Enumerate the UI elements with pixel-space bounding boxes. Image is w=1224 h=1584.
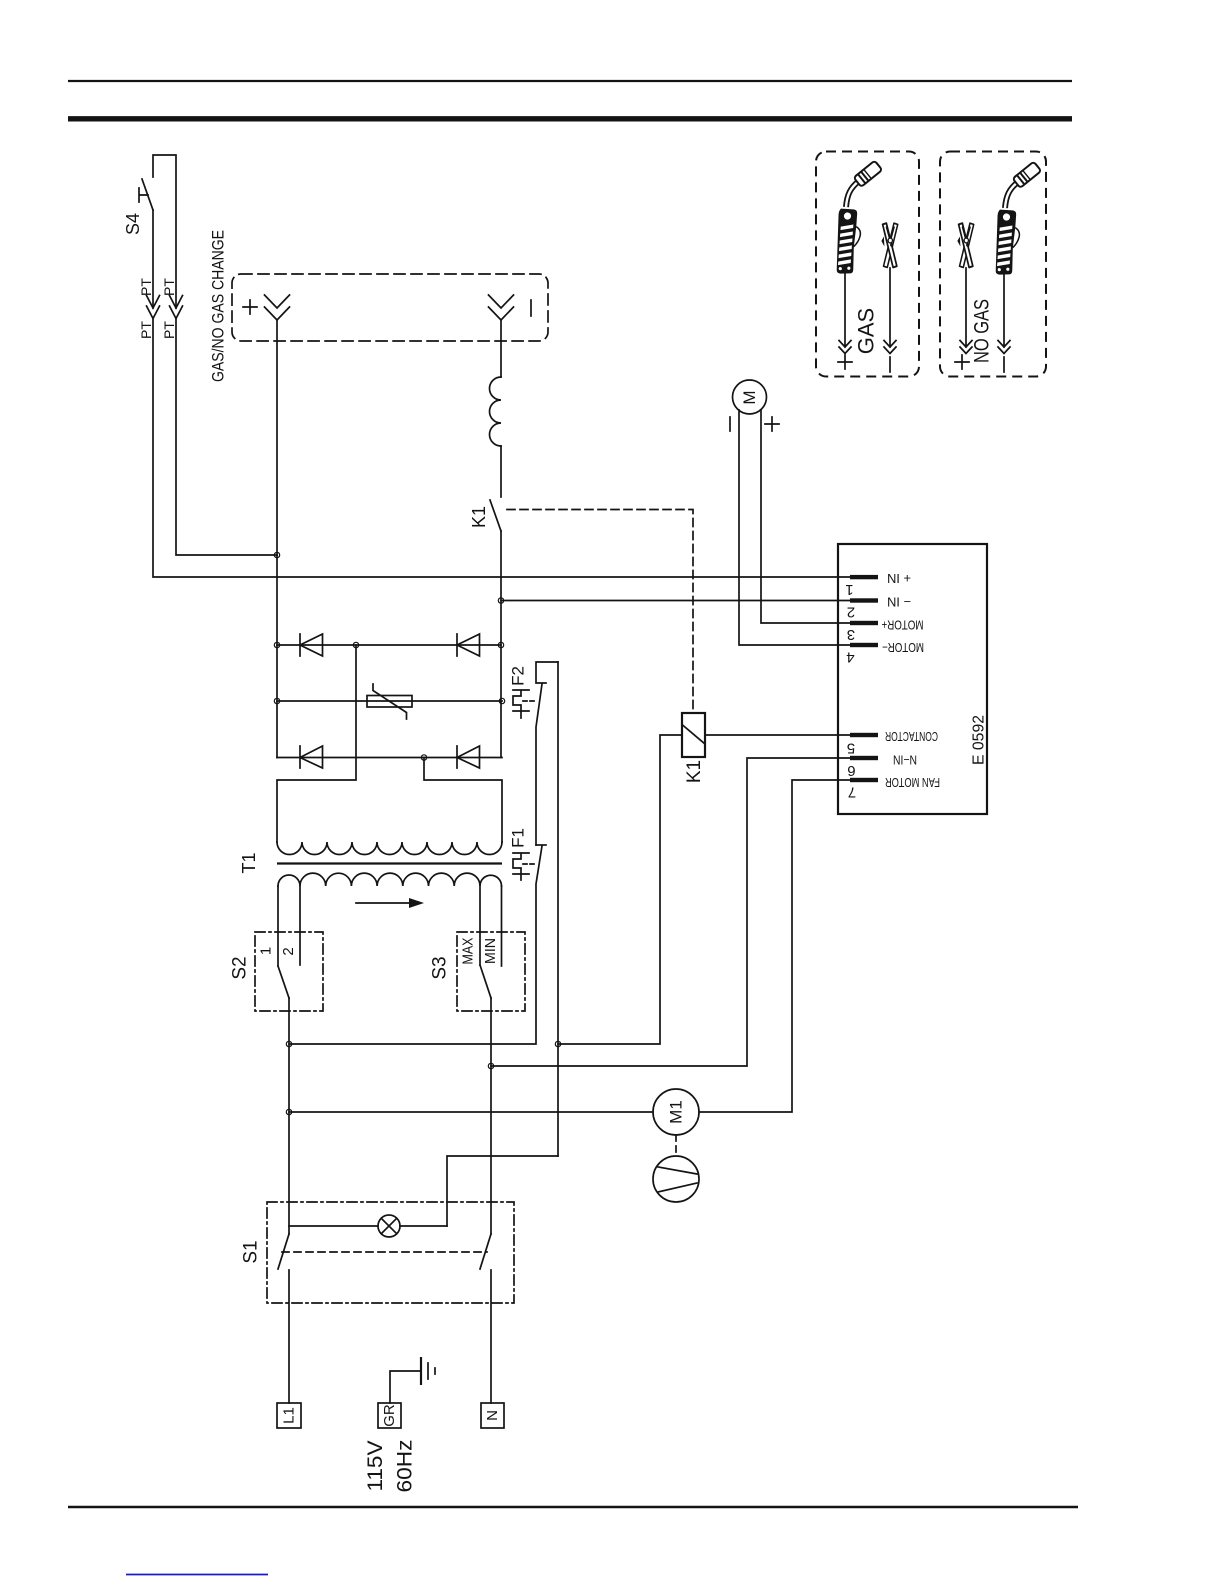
node varistor-row right junction bbox=[499, 698, 504, 703]
node AC hot / S2 output junction bbox=[286, 1041, 291, 1046]
node bus/IN- junction bbox=[498, 598, 503, 603]
dashed shaft link bbox=[675, 1135, 677, 1156]
wire + bus left bbox=[276, 555, 278, 758]
switch S3 blade bbox=[480, 965, 491, 998]
minus NO GAS bbox=[1003, 357, 1005, 372]
svg-text:GR: GR bbox=[381, 1404, 398, 1427]
svg-text:M1: M1 bbox=[667, 1100, 686, 1124]
svg-text:MOTOR−: MOTOR− bbox=[882, 640, 924, 654]
svg-text:GAS/NO GAS CHANGE: GAS/NO GAS CHANGE bbox=[209, 230, 228, 382]
svg-text:5: 5 bbox=[847, 740, 855, 757]
switch S1 box bbox=[267, 1202, 514, 1303]
switch S3 box bbox=[457, 932, 525, 1011]
pin 6 bar bbox=[850, 756, 878, 760]
wire S2 output bbox=[288, 998, 290, 1234]
wire S1 N output bbox=[490, 1270, 492, 1403]
wire varistor row bbox=[277, 700, 502, 702]
svg-text:− IN: − IN bbox=[887, 595, 911, 609]
torch icon GAS bbox=[834, 161, 882, 275]
terminal L1 box bbox=[277, 1403, 301, 1428]
svg-text:GAS: GAS bbox=[854, 308, 879, 354]
svg-text:6: 6 bbox=[847, 762, 855, 779]
arrow GAS clamp bbox=[884, 268, 896, 354]
pin 2 bar bbox=[850, 598, 878, 602]
svg-text:T1: T1 bbox=[239, 852, 259, 873]
wire S4 right lower to +bus bbox=[176, 319, 277, 556]
wire lamp feed bbox=[447, 1156, 558, 1226]
wire main bus (K1 to rectifier) bbox=[500, 531, 502, 758]
svg-text:2: 2 bbox=[847, 604, 855, 621]
output terminal - (double chevron) bbox=[489, 295, 514, 320]
wire rectifier row2 bbox=[277, 757, 502, 759]
svg-text:S2: S2 bbox=[230, 956, 251, 979]
fuse F2 dashed link bbox=[523, 700, 535, 702]
svg-text:PT: PT bbox=[161, 321, 177, 339]
switch S4 wire hook (top U-turn) bbox=[153, 155, 176, 308]
wire - terminal to inductor bbox=[500, 320, 502, 377]
wire primary MIN lead bbox=[501, 886, 503, 966]
wire lamp right bbox=[400, 1225, 447, 1227]
switch S2 box bbox=[255, 932, 323, 1011]
plus sign output + bbox=[243, 300, 257, 314]
svg-text:PT: PT bbox=[138, 278, 154, 296]
switch S1 blade L bbox=[278, 1234, 289, 1269]
terminal GR box bbox=[378, 1403, 401, 1428]
pin 5 bar bbox=[850, 733, 878, 737]
wire fan motor feed bbox=[289, 1111, 653, 1113]
svg-text:N−IN: N−IN bbox=[893, 753, 917, 767]
pin 1 bar bbox=[850, 575, 878, 579]
wire center tap to secondary left lead bbox=[277, 645, 356, 842]
label motor plus bbox=[765, 417, 779, 431]
fuse F1 blade and output bbox=[289, 846, 542, 1044]
connector PT right (chevron pair) bbox=[170, 296, 183, 319]
fuse F2 blade bbox=[536, 684, 542, 845]
svg-text:S1: S1 bbox=[241, 1240, 262, 1263]
fan impeller blades bbox=[658, 1167, 697, 1192]
svg-text:1: 1 bbox=[258, 947, 275, 955]
svg-text:S3: S3 bbox=[430, 956, 451, 979]
relay coil K1 body bbox=[682, 713, 705, 757]
dashed mechanical link bbox=[282, 1251, 487, 1253]
relay coil K1 diagonal bbox=[682, 725, 705, 745]
node row2 secondary-right junction bbox=[421, 755, 426, 760]
wire primary tap 2 lead bbox=[299, 886, 301, 965]
svg-text:+ IN: + IN bbox=[887, 571, 911, 585]
fan impeller circle bbox=[653, 1156, 699, 1202]
torch icon NO GAS bbox=[993, 162, 1041, 276]
diode D3 bbox=[300, 746, 323, 768]
svg-text:L1: L1 bbox=[281, 1407, 298, 1424]
plus GAS bbox=[838, 355, 852, 369]
wire contactor coil feed bbox=[558, 735, 682, 1044]
node row1 right junction bbox=[498, 642, 503, 647]
varistor RV1 body bbox=[367, 696, 412, 708]
diode D4 bbox=[457, 746, 480, 768]
node row1 center-tap junction bbox=[353, 642, 358, 647]
wire S4 left upper segment bbox=[152, 210, 154, 308]
wire row2 to secondary right lead bbox=[424, 758, 502, 843]
arrow current direction bbox=[356, 902, 409, 904]
fuse F2 thermal element bbox=[513, 690, 529, 718]
diode D2 bbox=[457, 634, 480, 656]
svg-text:FAN MOTOR: FAN MOTOR bbox=[885, 775, 940, 789]
wire + terminal to bus node bbox=[276, 320, 278, 555]
node +bus varistor junction bbox=[274, 698, 279, 703]
svg-text:3: 3 bbox=[847, 626, 855, 643]
motor M1 (fan) circle bbox=[653, 1089, 699, 1135]
arrow GAS torch bbox=[839, 273, 851, 354]
svg-text:N: N bbox=[484, 1410, 501, 1421]
svg-text:F1: F1 bbox=[509, 828, 528, 848]
switch S4 blade bbox=[142, 179, 153, 210]
node N-IN junction bbox=[488, 1063, 493, 1068]
switch S1 blade N bbox=[480, 1234, 491, 1269]
wire IN- to PCB pin2 bbox=[501, 600, 850, 602]
motor M (wire feed) circle bbox=[733, 380, 767, 414]
arrow NO GAS clamp bbox=[960, 268, 972, 354]
header thick rule bbox=[68, 116, 1072, 121]
inductor L (output choke) bbox=[490, 377, 501, 446]
svg-text:MOTOR+: MOTOR+ bbox=[882, 618, 924, 632]
svg-text:E 0592: E 0592 bbox=[971, 715, 988, 765]
svg-text:CONTACTOR: CONTACTOR bbox=[885, 729, 938, 743]
transformer T1 core bbox=[277, 862, 502, 864]
svg-text:NO GAS: NO GAS bbox=[971, 299, 994, 363]
svg-text:1: 1 bbox=[845, 581, 853, 598]
fuse F1 dashed link bbox=[523, 863, 535, 865]
wire rectifier row1 bbox=[277, 644, 501, 646]
connector PT left (chevron pair) bbox=[147, 296, 160, 319]
svg-text:K1: K1 bbox=[469, 506, 489, 528]
fuse F1 contact tick bbox=[536, 844, 546, 846]
pin 3 bar bbox=[850, 621, 878, 625]
svg-text:F2: F2 bbox=[509, 666, 528, 686]
arrow NO GAS torch bbox=[998, 274, 1010, 354]
node fan feed junction bbox=[286, 1109, 291, 1114]
wire S3 output bbox=[490, 998, 492, 1234]
node +bus top junction bbox=[274, 552, 279, 557]
svg-text:4: 4 bbox=[846, 649, 854, 666]
pin 7 bar bbox=[850, 778, 878, 782]
dashed box GAS bbox=[816, 152, 919, 377]
plus NO GAS bbox=[955, 355, 969, 369]
switch S4 pushbutton actuator bbox=[139, 188, 148, 202]
lamp indicator bbox=[378, 1215, 400, 1237]
wire inductor to K1 contact bbox=[500, 446, 502, 497]
dashed link K1 contact to coil bbox=[507, 510, 693, 714]
wire S1 L output bbox=[288, 1270, 290, 1403]
clamp icon GAS bbox=[881, 223, 897, 267]
clamp icon NO GAS bbox=[957, 223, 973, 267]
footer blue link mark bbox=[126, 1574, 268, 1576]
output terminal + (double chevron) bbox=[265, 295, 290, 320]
transformer T1 primary winding bbox=[278, 873, 502, 886]
wire S4 left lower to IN+ bbox=[153, 319, 850, 578]
wire N-IN to PCB pin6 bbox=[491, 758, 850, 1066]
svg-text:115V: 115V bbox=[364, 1441, 387, 1492]
svg-text:60Hz: 60Hz bbox=[394, 1440, 417, 1493]
PCB board E 0592 outline bbox=[838, 544, 987, 814]
minus GAS bbox=[889, 357, 891, 372]
wire F2 output down bbox=[557, 662, 559, 1156]
svg-text:MIN: MIN bbox=[482, 938, 499, 964]
fuse F2 contact and elbow bbox=[536, 662, 558, 683]
label motor minus bbox=[729, 417, 731, 431]
svg-text:K1: K1 bbox=[684, 760, 705, 783]
svg-text:MAX: MAX bbox=[460, 938, 477, 965]
wire primary MAX lead bbox=[479, 886, 481, 965]
wire motor+ to PCB pin3 bbox=[761, 410, 850, 623]
fuse F1 thermal element bbox=[513, 853, 529, 880]
node F2 output junction bbox=[555, 1041, 560, 1046]
transformer T1 secondary winding bbox=[277, 842, 502, 855]
wire relay to PCB pin5 bbox=[705, 734, 850, 736]
svg-text:7: 7 bbox=[848, 784, 856, 801]
svg-text:PT: PT bbox=[161, 278, 177, 296]
diode D1 bbox=[300, 634, 323, 656]
terminal N box bbox=[481, 1403, 504, 1428]
varistor RV1 strike bbox=[373, 684, 407, 719]
node +bus diode row1 junction bbox=[274, 642, 279, 647]
wire primary tap 1 lead bbox=[277, 886, 279, 966]
header thin rule bbox=[68, 80, 1072, 82]
dashed box NO GAS bbox=[940, 152, 1046, 377]
svg-text:PT: PT bbox=[138, 321, 154, 339]
minus sign output - bbox=[530, 300, 532, 316]
svg-text:S4: S4 bbox=[123, 213, 143, 235]
wire motor- to PCB pin4 bbox=[739, 410, 850, 645]
footer rule bbox=[68, 1506, 1078, 1508]
svg-text:2: 2 bbox=[280, 947, 297, 955]
switch S2 blade bbox=[278, 966, 289, 998]
wire GR to ground bbox=[390, 1371, 421, 1403]
wire fan motor to PCB pin7 bbox=[699, 780, 850, 1112]
dashed box GAS/NO GAS CHANGE bbox=[232, 274, 548, 341]
wire lamp left bbox=[289, 1225, 378, 1227]
contactor contact K1 blade bbox=[490, 500, 501, 531]
pin 4 bar bbox=[850, 643, 878, 647]
ground symbol bbox=[420, 1357, 422, 1385]
svg-text:M: M bbox=[740, 390, 759, 404]
